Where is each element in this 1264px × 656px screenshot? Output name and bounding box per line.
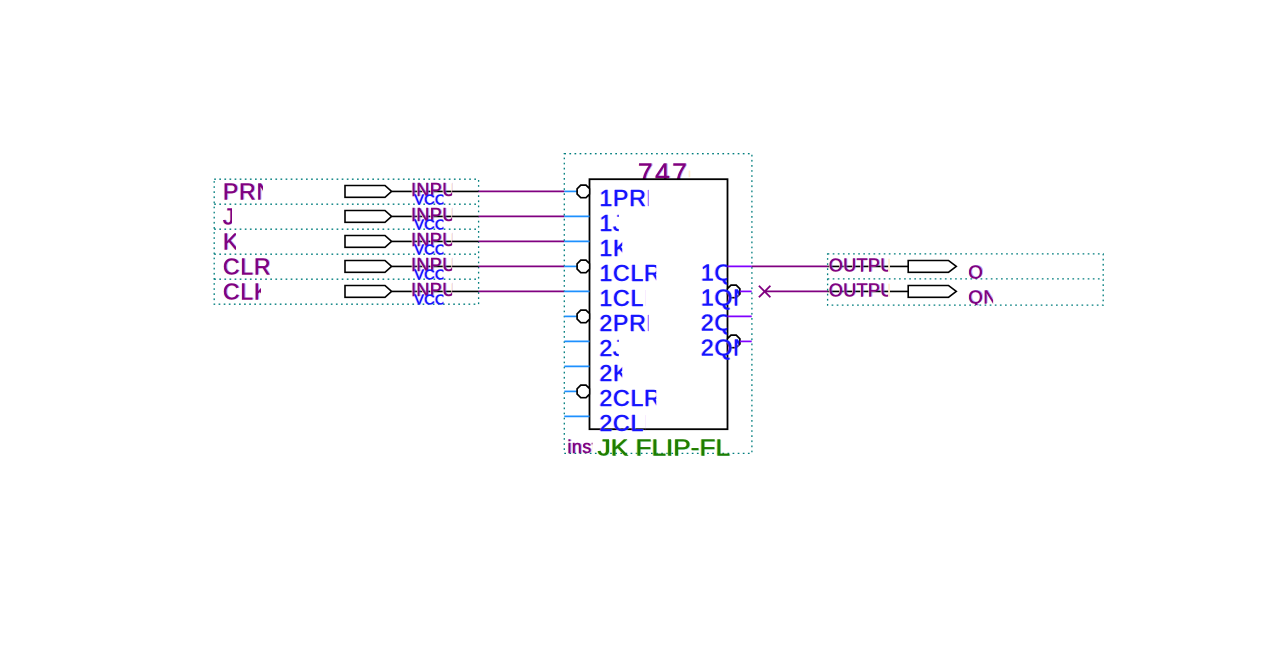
input pin name CLRN	[222, 253, 290, 280]
symbol name 747(6)	[637, 158, 708, 189]
input pin symbol J lead line	[392, 215, 479, 217]
pin stub 1CLK	[564, 290, 589, 292]
pin stub 1J	[564, 215, 589, 217]
pin label 1QN	[700, 284, 752, 310]
pin label 1Q	[700, 259, 735, 285]
clipped glyph sliver after OUTPUT (QN)	[888, 284, 890, 297]
pin stub 2PRN	[564, 315, 577, 317]
symbol description JK FLIP-FLOP	[597, 435, 732, 461]
wire CLRN to 747	[479, 265, 565, 267]
pin label 2CLK	[599, 410, 662, 436]
output pins selection box outline	[828, 254, 1104, 305]
input pin name J	[222, 203, 237, 230]
output pin symbol QN flag	[908, 286, 956, 298]
input pin symbol CLRN lead line	[392, 265, 479, 267]
output symbol Q lead line	[828, 265, 909, 267]
output pin name QN	[967, 286, 998, 308]
output pin symbol Q flag	[908, 261, 956, 273]
inversion bubble 1CLRN	[577, 260, 590, 273]
pin label 2PRN	[599, 310, 666, 336]
input pin symbol K lead line	[392, 240, 479, 242]
input symbol text INPUT (K)	[410, 230, 468, 251]
pin stub 2CLRN	[564, 390, 577, 392]
clipped glyph sliver after 747	[689, 171, 691, 178]
op body rectangle of 747	[590, 179, 728, 429]
input symbol text VCC (CLRN)	[413, 267, 447, 283]
svg-text:VCC: VCC	[414, 292, 446, 308]
pin stub 1Q	[728, 265, 752, 267]
dangling-end X marker on QN wire	[759, 286, 771, 298]
input symbol text VCC (K)	[413, 242, 447, 258]
pin stub 2Q	[728, 315, 752, 317]
input pin name PRN	[222, 178, 275, 205]
output pins selection box divider	[828, 278, 1104, 280]
inversion bubble 2PRN	[577, 310, 590, 323]
input pin name CLK	[222, 278, 271, 305]
pin label 1K	[599, 235, 631, 261]
input pin symbol PRN flag	[345, 186, 392, 198]
input pin symbol CLRN flag	[345, 261, 392, 273]
pin label 2K	[599, 360, 631, 386]
pin label 2QN	[700, 334, 752, 360]
pin stub 2QN	[740, 340, 752, 342]
input pin symbol J flag	[345, 211, 392, 223]
inversion bubble 1PRN	[577, 185, 590, 198]
pin label 1PRN	[599, 185, 666, 211]
input pin symbol CLK flag	[345, 286, 392, 298]
pin label 2CLRN	[599, 385, 681, 411]
clipped glyph sliver after OUTPUT (Q)	[888, 259, 890, 272]
output symbol QN lead line	[828, 290, 909, 292]
pin label 2Q	[700, 309, 735, 335]
input symbol text VCC (CLK)	[413, 292, 447, 308]
input symbol text INPUT (CLRN)	[410, 255, 468, 276]
inversion bubble 1QN	[727, 285, 740, 298]
input pin symbol K flag	[345, 236, 392, 248]
svg-text:JK FLIP-FL: JK FLIP-FL	[598, 435, 731, 461]
inversion bubble 2CLRN	[577, 385, 590, 398]
pin label 1CLRN	[599, 260, 681, 286]
input symbol text VCC (PRN)	[413, 192, 447, 208]
input pins selection box outline	[214, 179, 478, 304]
pin label 1CLK	[599, 285, 662, 311]
input symbol text INPUT (J)	[410, 205, 468, 226]
pin stub 1PRN	[564, 190, 577, 192]
wire K to 747	[479, 240, 565, 242]
747 symbol selection box	[564, 154, 752, 454]
wire PRN to 747	[479, 190, 565, 192]
output pin name Q	[967, 261, 984, 283]
pin stub 1QN	[740, 290, 752, 292]
input symbol text INPUT (CLK)	[410, 280, 468, 301]
inversion bubble 2QN	[727, 335, 740, 348]
input symbol text INPUT (PRN)	[410, 180, 468, 201]
input pin symbol PRN lead line	[392, 190, 479, 192]
pin stub 1CLRN	[564, 265, 577, 267]
input pin symbol CLK lead line	[392, 290, 479, 292]
pin stub 2CLK	[564, 415, 589, 417]
wire 1Q to output Q	[752, 265, 828, 267]
output symbol text OUTPUT (QN)	[828, 280, 907, 301]
pin label 2J	[599, 335, 627, 361]
wire J to 747	[479, 215, 565, 217]
input symbol text VCC (J)	[413, 217, 447, 233]
wire 1QN to output QN	[765, 290, 828, 292]
pin stub 2K	[564, 365, 589, 367]
pin stub 2J	[564, 340, 589, 342]
wire CLK to 747	[479, 290, 565, 292]
output symbol text OUTPUT (Q)	[828, 255, 907, 276]
input pin name K	[222, 228, 240, 255]
svg-text:QN: QN	[968, 286, 997, 307]
input pins selection box divider 1	[214, 203, 478, 205]
pin label 1J	[599, 210, 627, 236]
instance name inst	[566, 437, 598, 458]
pin stub 1K	[564, 240, 589, 242]
